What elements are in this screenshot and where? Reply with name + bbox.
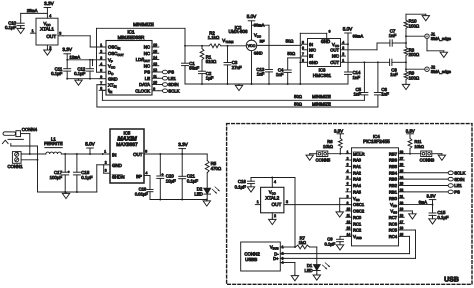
op IC1 MB15E06SR PLL synthesizer	[106, 41, 152, 96]
svg-text:4: 4	[347, 169, 349, 173]
svg-text:3.3V: 3.3V	[44, 1, 54, 6]
svg-text:SMA_edge: SMA_edge	[431, 36, 452, 41]
wire J1 ground	[426, 38, 428, 50]
svg-text:OUT: OUT	[46, 34, 56, 39]
svg-text:CONN1: CONN1	[8, 164, 24, 169]
connector CONN1 terminal	[12, 152, 21, 164]
svg-text:7: 7	[302, 52, 304, 56]
IC4 left pin 5 stub	[346, 178, 352, 180]
ground rail power input	[38, 191, 97, 193]
svg-text:1nF: 1nF	[390, 72, 398, 77]
IC1 left pin 4 stub	[99, 65, 106, 67]
IC4 left pin 13 stub	[346, 229, 352, 231]
IC1 left pin 7 stub	[99, 84, 106, 86]
wire VSS right to ground	[404, 210, 412, 212]
svg-text:RB5: RB5	[389, 164, 398, 169]
connector CONN3	[421, 151, 432, 157]
capacitor C20 10uF	[159, 154, 161, 176]
ground for XTAL2	[271, 218, 273, 219]
IC4 left pin 12 stub	[346, 223, 352, 225]
IC1 right pin 9 stub	[152, 90, 159, 92]
LED D1	[316, 247, 318, 265]
svg-text:1µF: 1µF	[206, 75, 214, 80]
pin 2 stub	[46, 45, 48, 49]
wire to tag SDIN	[159, 84, 163, 86]
IC1 right pin 11 stub	[152, 77, 159, 79]
svg-text:SMA_edge: SMA_edge	[431, 69, 452, 74]
wire CONN5 to ground	[310, 153, 317, 155]
wire to V_CC	[92, 60, 94, 66]
svg-text:RA4: RA4	[353, 183, 362, 188]
ground for C16	[250, 185, 252, 186]
svg-text:1nF: 1nF	[276, 72, 284, 77]
IC4 right pin 17 stub	[399, 223, 405, 225]
wire RF output 50ohm	[257, 44, 302, 46]
resistor R3 200ohm	[405, 43, 407, 48]
capacitor C9 0.1uF	[337, 238, 344, 240]
IC4 left pin 1 stub	[346, 153, 352, 155]
svg-text:RC2: RC2	[353, 228, 362, 233]
IC3 pin 8 stub	[300, 61, 307, 63]
op IC2 UMX-806 VCO	[246, 40, 257, 51]
XTAL2 pin 4 stub	[271, 178, 273, 188]
wire R10 top to gnd	[406, 13, 426, 15]
CONN4 sleeve contact	[8, 138, 23, 140]
svg-text:OUT: OUT	[330, 47, 339, 52]
wire MINIMIZE to loop filter	[97, 27, 186, 29]
svg-text:CONN3: CONN3	[420, 157, 435, 162]
svg-text:RC0: RC0	[353, 215, 362, 220]
svg-text:27nF: 27nF	[232, 65, 242, 70]
svg-text:MINIMIZE: MINIMIZE	[133, 22, 154, 27]
node tag SDIN	[448, 177, 453, 181]
IC4 left pin 6 stub	[346, 185, 352, 187]
svg-text:IN: IN	[309, 42, 313, 47]
svg-text:IC3: IC3	[319, 68, 326, 73]
svg-text:0.1µF: 0.1µF	[235, 184, 247, 189]
ground for VSS right	[411, 212, 413, 213]
svg-text:1: 1	[257, 200, 259, 204]
node loop filter	[184, 28, 186, 46]
svg-text:NC: NC	[144, 51, 150, 56]
svg-text:2: 2	[282, 252, 284, 256]
svg-text:N/C: N/C	[332, 54, 339, 59]
capacitor C16 0.1uF	[250, 178, 252, 182]
svg-text:4: 4	[274, 180, 276, 184]
IC4 right pin 28 stub	[399, 153, 405, 155]
svg-text:PS: PS	[144, 70, 150, 75]
wire CONN3 to ground	[432, 153, 442, 155]
ground for C10	[20, 27, 22, 28]
svg-text:3: 3	[100, 56, 102, 60]
svg-text:3: 3	[105, 169, 107, 173]
svg-text:0.01µF: 0.01µF	[135, 191, 148, 196]
IC4 right pin 16 stub	[399, 229, 405, 231]
svg-text:6: 6	[100, 75, 102, 79]
svg-text:LE1: LE1	[454, 183, 462, 188]
resistor R6 10kohm	[338, 138, 342, 148]
svg-text:IN: IN	[112, 152, 116, 157]
LED D2	[206, 173, 208, 188]
svg-text:3.3V: 3.3V	[334, 128, 343, 133]
IC3 pin 6 stub	[303, 49, 308, 51]
connector CONN4 barrel jack	[3, 132, 16, 135]
IC1 right pin 15 stub	[152, 52, 159, 54]
svg-text:RB1: RB1	[389, 189, 398, 194]
svg-text:LE: LE	[145, 76, 150, 81]
wire VCC branch to C13	[252, 24, 270, 26]
svg-text:MB15E06SR: MB15E06SR	[118, 35, 145, 40]
wire D- line	[280, 253, 409, 255]
svg-text:13: 13	[347, 226, 351, 230]
svg-text:13: 13	[153, 62, 157, 66]
op IC5 MAX8887 LDO	[110, 129, 144, 183]
svg-text:50Ω: 50Ω	[286, 39, 294, 44]
svg-text:CONN4: CONN4	[22, 127, 38, 132]
svg-text:4: 4	[49, 14, 51, 18]
svg-text:+: +	[162, 173, 164, 177]
IC1 right pin 10 stub	[152, 84, 159, 86]
capacitor C10 0.1uF	[20, 13, 22, 23]
svg-text:0.1µF: 0.1µF	[5, 25, 17, 30]
wire RB7 to CONN3	[404, 153, 421, 155]
IC4 right pin 27 stub	[399, 159, 405, 161]
IC3 pin 5 stub	[301, 43, 307, 45]
svg-text:2: 2	[105, 160, 107, 164]
IC4 right pin 23 stub	[399, 185, 405, 187]
resistor R7 1kohm	[296, 245, 310, 249]
svg-text:1nF: 1nF	[354, 92, 362, 97]
capacitor C6 1nF	[377, 62, 379, 92]
wire D+ line	[280, 257, 415, 259]
svg-text:1kΩ: 1kΩ	[299, 240, 306, 245]
svg-text:8: 8	[100, 86, 102, 90]
ground for 3.3V rail caps	[206, 200, 208, 201]
svg-text:11: 11	[347, 214, 351, 218]
svg-text:RC4: RC4	[389, 234, 398, 239]
ground for C15	[432, 217, 434, 218]
IC4 left pin 7 stub	[346, 191, 352, 193]
IC4 left pin 3 stub	[346, 165, 352, 167]
svg-text:PS: PS	[168, 70, 174, 75]
wire 3.3V to XTAL1 VCC	[21, 12, 48, 14]
LED D2 light arrows	[212, 187, 220, 194]
svg-text:RC1: RC1	[353, 221, 362, 226]
wire D_O to loop filter	[96, 28, 98, 72]
svg-text:6: 6	[347, 182, 349, 186]
ground for CONN3	[441, 154, 443, 155]
wire to tag SCLK	[159, 90, 163, 92]
IC3 pin 9 stub	[326, 33, 328, 38]
IC3 pin 2 stub	[341, 55, 346, 57]
svg-text:5: 5	[302, 40, 304, 44]
ground for R9	[405, 83, 407, 84]
wire CONN1 pin1 to L1	[21, 153, 46, 155]
svg-text:12mA: 12mA	[70, 55, 81, 60]
IC4 right pin 22 stub	[399, 191, 405, 193]
svg-text:DATA: DATA	[139, 82, 150, 87]
ground for input rail	[65, 192, 67, 193]
svg-text:GND: GND	[254, 51, 263, 56]
svg-text:1: 1	[32, 29, 34, 33]
svg-text:2: 2	[100, 49, 102, 53]
wire VTUNE	[221, 45, 246, 47]
ground for R10	[425, 14, 427, 15]
svg-text:100µF: 100µF	[50, 175, 63, 180]
wire 50ohm line upper	[102, 99, 364, 101]
wire to tag PS	[159, 71, 163, 73]
svg-text:16: 16	[400, 226, 404, 230]
svg-text:9: 9	[329, 30, 331, 34]
svg-text:10kΩ: 10kΩ	[323, 144, 333, 149]
svg-text:D+: D+	[273, 256, 279, 261]
svg-text:6mA: 6mA	[419, 199, 428, 204]
svg-text:10: 10	[347, 207, 351, 211]
IC4 right pin 15 stub	[399, 235, 405, 237]
capacitor C8 1nF coupling	[389, 59, 391, 65]
svg-text:26: 26	[400, 163, 404, 167]
IC4 right pin 20 stub	[399, 204, 405, 206]
capacitor C2 1uF	[199, 70, 206, 72]
ground rail under C11 C12	[67, 78, 99, 80]
svg-text:8: 8	[347, 194, 349, 198]
svg-text:1: 1	[347, 150, 349, 154]
svg-text:PS: PS	[454, 190, 460, 195]
IC4 left pin 2 stub	[346, 159, 352, 161]
resistor R9 100ohm	[405, 62, 407, 71]
IC1 left pin 8 stub	[99, 89, 106, 91]
capacitor C3 27nF	[227, 46, 229, 63]
svg-text:OUT: OUT	[133, 152, 143, 157]
svg-text:1: 1	[100, 43, 102, 47]
svg-text:XTAL2: XTAL2	[265, 195, 279, 200]
svg-text:1: 1	[342, 58, 344, 62]
svg-text:RB6: RB6	[389, 158, 398, 163]
svg-text:SCLK: SCLK	[454, 170, 465, 175]
svg-text:OSC2: OSC2	[353, 209, 365, 214]
svg-text:SDIN: SDIN	[168, 82, 178, 87]
svg-text:63mA: 63mA	[353, 34, 364, 39]
node tag PS	[162, 70, 167, 74]
svg-text:SHDN: SHDN	[112, 174, 125, 179]
svg-text:5: 5	[145, 150, 147, 154]
svg-text:5.0V: 5.0V	[343, 27, 353, 32]
svg-text:470Ω: 470Ω	[211, 166, 222, 171]
ground for C9	[339, 243, 341, 244]
svg-text:LED: LED	[305, 268, 313, 273]
wire CONN1 pin2 to ground	[21, 159, 37, 161]
svg-text:RC5: RC5	[389, 228, 398, 233]
node tag SCLK	[448, 171, 453, 175]
svg-text:GND: GND	[321, 39, 330, 44]
svg-text:2: 2	[347, 156, 349, 160]
crystal oscillator XTAL2	[261, 187, 284, 213]
svg-text:8: 8	[302, 58, 304, 62]
svg-text:RB3: RB3	[389, 177, 398, 182]
resistor R11 10kohm	[408, 138, 412, 148]
crystal oscillator XTAL1	[36, 18, 58, 45]
svg-text:LE1: LE1	[168, 76, 176, 81]
svg-text:IC4: IC4	[373, 134, 380, 139]
svg-text:IC5: IC5	[124, 131, 131, 136]
svg-text:15: 15	[153, 49, 157, 53]
svg-text:27: 27	[400, 156, 404, 160]
wire IN- 50ohm stub	[288, 57, 302, 59]
svg-text:9: 9	[347, 201, 349, 205]
svg-text:RA0: RA0	[353, 158, 362, 163]
svg-text:RA3: RA3	[353, 177, 362, 182]
capacitor C19 0.01uF	[149, 176, 151, 190]
svg-text:MINIMIZE: MINIMIZE	[312, 94, 331, 99]
pin 3 stub	[58, 35, 63, 37]
svg-text:RB2: RB2	[389, 183, 398, 188]
wire RB to tag LE1	[404, 185, 448, 187]
wire XT_IN	[97, 84, 106, 86]
svg-text:NC: NC	[144, 45, 150, 50]
wire IC3 OUTbar	[341, 61, 390, 63]
wire RC5 to D+	[404, 229, 415, 231]
resistor R2 1.1kohm	[209, 44, 221, 48]
resistor R1 510ohm	[201, 46, 203, 49]
connector J2 SMA_edge	[406, 68, 425, 70]
wire XTAL2 VCC to VBUS	[294, 178, 296, 248]
svg-text:21: 21	[400, 194, 404, 198]
svg-text:4: 4	[100, 62, 102, 66]
svg-text:0.1µF: 0.1µF	[81, 175, 93, 180]
capacitor C11 0.1uF	[66, 60, 68, 69]
IC1 left pin 6 stub	[99, 78, 106, 80]
wire OUT up	[376, 43, 378, 50]
IC1 right pin 13 stub	[152, 65, 159, 67]
wire VDD to 3.3V	[404, 204, 432, 206]
svg-text:RA1: RA1	[353, 164, 362, 169]
svg-text:3.3V: 3.3V	[62, 47, 72, 52]
svg-text:OUT: OUT	[272, 202, 282, 207]
section box USB	[227, 124, 472, 285]
wire CONN4 sleeve to ground	[11, 145, 38, 147]
pin 1 stub	[30, 32, 36, 34]
svg-text:1nF: 1nF	[257, 71, 265, 76]
IC4 right pin 19 stub	[399, 210, 405, 212]
wire R7 to D1	[310, 246, 317, 248]
svg-text:22: 22	[400, 188, 404, 192]
ferrite core bar	[45, 147, 62, 149]
svg-text:CONN5: CONN5	[316, 157, 331, 162]
svg-text:50Ω: 50Ω	[294, 102, 302, 107]
svg-text:BP: BP	[136, 174, 142, 179]
svg-text:MAXIM: MAXIM	[117, 136, 137, 143]
ground for VSS left	[339, 211, 341, 212]
capacitor C18 0.1uF	[76, 154, 78, 172]
svg-text:LED: LED	[194, 192, 202, 197]
svg-text:10µF: 10µF	[166, 178, 176, 183]
svg-text:14: 14	[347, 233, 351, 237]
svg-text:9: 9	[153, 87, 155, 91]
wire XTAL2 VCC	[251, 177, 295, 179]
svg-text:0.1µF: 0.1µF	[325, 241, 336, 246]
svg-text:11: 11	[153, 74, 157, 78]
svg-text:GND: GND	[108, 76, 118, 81]
capacitor C17 100uF	[64, 154, 66, 172]
svg-text:3: 3	[347, 163, 349, 167]
svg-text:5: 5	[347, 175, 349, 179]
svg-text:7: 7	[347, 188, 349, 192]
IC1 left pin 2 stub	[99, 52, 106, 54]
wire VBUS	[280, 246, 295, 248]
svg-text:3: 3	[286, 200, 288, 204]
svg-text:RB4: RB4	[389, 170, 398, 175]
ground rail loop filter	[185, 83, 348, 85]
svg-text:2: 2	[274, 214, 276, 218]
ground for CONN5	[309, 154, 311, 155]
svg-text:25mA: 25mA	[27, 8, 38, 13]
IC1 left pin 3 stub	[99, 59, 106, 61]
svg-text:UMX-806: UMX-806	[228, 29, 248, 34]
svg-text:4: 4	[342, 40, 344, 44]
IC4 right pin 26 stub	[399, 165, 405, 167]
svg-text:200Ω: 200Ω	[409, 52, 420, 57]
wire RB to tag PS	[404, 191, 448, 193]
svg-text:20: 20	[400, 201, 404, 205]
wire IC3 OUT	[341, 49, 378, 51]
op IC4 PIC18F2455 microcontroller	[352, 148, 399, 246]
svg-text:CLOCK: CLOCK	[135, 88, 150, 93]
svg-text:4: 4	[146, 171, 148, 175]
svg-text:GND: GND	[309, 60, 318, 65]
IC1 right pin 16 stub	[152, 46, 159, 48]
wire 3.3V rail to V_P	[67, 59, 99, 61]
svg-text:3: 3	[59, 32, 61, 36]
IC4 right pin 25 stub	[399, 172, 405, 174]
connector J1 SMA_edge	[406, 35, 425, 37]
svg-text:56nF: 56nF	[189, 66, 199, 71]
ground for CONN2	[294, 274, 296, 275]
svg-text:VCO: VCO	[248, 44, 256, 48]
IC4 right pin 18 stub	[399, 216, 405, 218]
svg-text:SCLK: SCLK	[168, 88, 179, 93]
svg-text:3: 3	[342, 46, 344, 50]
op IC3 HMC361 divider	[308, 39, 341, 67]
IC1 left pin 1 stub	[99, 46, 106, 48]
svg-text:OSC1: OSC1	[353, 202, 365, 207]
wire 5V node to IC5 IN	[61, 153, 110, 155]
svg-text:GND: GND	[112, 163, 122, 168]
IC4 right pin 24 stub	[399, 178, 405, 180]
ground for XTAL1	[46, 49, 48, 50]
svg-text:1.1kΩ: 1.1kΩ	[208, 35, 220, 40]
svg-text:RA2: RA2	[353, 170, 362, 175]
svg-text:N/C: N/C	[309, 47, 316, 52]
wire RC4 to D-	[404, 235, 409, 237]
svg-text:RA5: RA5	[353, 189, 362, 194]
ground for J1	[443, 51, 445, 52]
svg-text:1nF: 1nF	[381, 92, 389, 97]
svg-text:2: 2	[49, 46, 51, 50]
svg-text:5.0V: 5.0V	[85, 141, 95, 146]
wire VUSB to C9	[340, 235, 346, 237]
wire 50ohm line lower	[97, 106, 378, 108]
capacitor C21 0.1uF	[181, 154, 183, 176]
svg-text:7: 7	[100, 81, 102, 85]
capacitor C13 1nF	[266, 69, 273, 71]
wire VCO ground	[251, 51, 253, 84]
capacitor C12 0.1uF	[89, 60, 91, 69]
svg-text:USB: USB	[444, 277, 459, 284]
wire XTAL2 OUT to OSC1	[284, 204, 352, 206]
capacitor C5 1nF	[363, 62, 365, 92]
svg-text:25: 25	[400, 169, 404, 173]
svg-text:0.1µF: 0.1µF	[187, 178, 199, 183]
